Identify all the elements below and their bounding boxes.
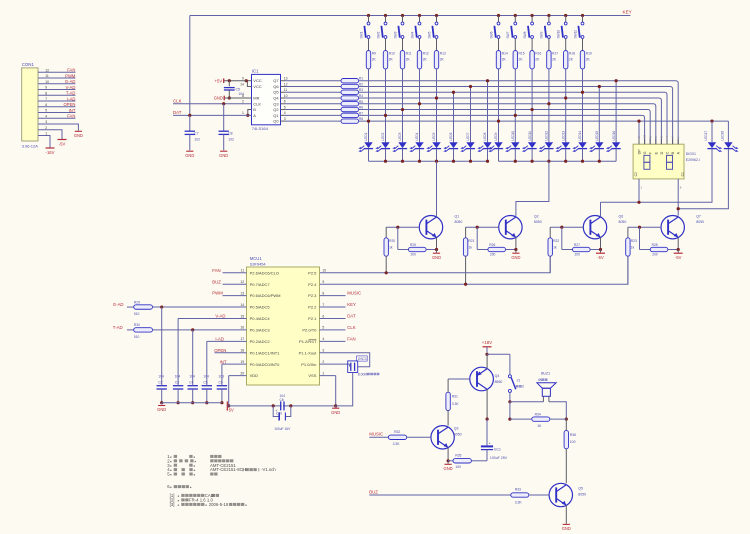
ground VSS [335, 406, 337, 408]
wire column [368, 69, 370, 142]
wire [436, 149, 438, 162]
svg-text:100: 100 [570, 440, 576, 444]
svg-text:15: 15 [240, 314, 244, 318]
wire bus 5 [359, 104, 656, 144]
svg-text:SW1: SW1 [359, 31, 363, 38]
node bus tap col [547, 102, 550, 105]
svg-text:4: 4 [322, 337, 324, 341]
svg-text:C4: C4 [189, 380, 193, 384]
wire [453, 149, 455, 162]
switch SW4 [418, 14, 421, 17]
resistor R14 [496, 51, 500, 69]
capacitor C5 [228, 79, 231, 82]
svg-text:17: 17 [240, 337, 244, 341]
svg-text:OSC1: OSC1 [358, 357, 367, 361]
svg-text:Q6: Q6 [619, 215, 624, 219]
svg-text:2: 2 [322, 360, 324, 364]
wire [582, 149, 584, 162]
svg-text:P0.6/ADC6/PWM: P0.6/ADC6/PWM [250, 293, 281, 298]
svg-text:+5V: +5V [226, 408, 234, 413]
wire to scan rail [385, 256, 387, 273]
resistor R31 [447, 379, 449, 392]
svg-text:9: 9 [45, 86, 47, 90]
svg-text:6: 6 [45, 103, 47, 107]
resistor R3 [341, 90, 359, 94]
svg-text:3.96-12A: 3.96-12A [22, 143, 39, 148]
svg-text:P0.0/ADC0/INT0: P0.0/ADC0/INT0 [250, 362, 281, 367]
svg-text:KEY: KEY [623, 10, 632, 15]
pin stub [320, 306, 346, 308]
wire [127, 306, 134, 308]
display DIG1 [633, 144, 684, 179]
wire CLK [173, 103, 252, 105]
svg-text:P0.3/ADC3: P0.3/ADC3 [250, 328, 271, 333]
svg-text:[3]: [3] [167, 502, 174, 507]
svg-text:FAN: FAN [67, 114, 75, 119]
svg-text:E20962-I: E20962-I [686, 158, 700, 162]
svg-text:7: 7 [45, 97, 47, 101]
svg-text:3.3K: 3.3K [452, 402, 460, 406]
resistor R16 [530, 51, 534, 69]
transistor Q6 [583, 216, 606, 239]
svg-text:R1: R1 [359, 77, 363, 81]
LED LED17 [711, 121, 713, 142]
svg-text:GND: GND [74, 133, 83, 138]
jumper J1 [508, 375, 511, 378]
svg-text:100: 100 [455, 465, 461, 469]
svg-text:Q7: Q7 [696, 215, 701, 219]
svg-text:R22: R22 [553, 239, 559, 243]
resistor R25 [409, 247, 427, 251]
svg-text:R2: R2 [359, 82, 363, 86]
node bus tap col [401, 108, 404, 111]
wire column [453, 92, 455, 142]
LED LED2 [381, 142, 389, 148]
svg-text:-5V: -5V [675, 255, 682, 260]
svg-text:GND: GND [331, 410, 340, 415]
svg-text:104: 104 [158, 375, 164, 379]
svg-text:LED4: LED4 [415, 132, 419, 140]
svg-text:R21: R21 [469, 239, 475, 243]
wire Q4 base [448, 378, 470, 380]
wire to scan rail [549, 256, 551, 273]
resistor R19 [580, 51, 584, 69]
wire bus 7 [359, 115, 645, 144]
svg-text:R27: R27 [574, 243, 580, 247]
svg-text:R6: R6 [359, 106, 363, 110]
LED LED7 [466, 142, 474, 148]
svg-text:C5: C5 [203, 380, 207, 384]
svg-text:T-AD: T-AD [66, 91, 76, 96]
power -16V [46, 147, 55, 149]
svg-text:8050: 8050 [454, 432, 462, 436]
node DAT drop [188, 114, 191, 117]
pin stub Q2 [281, 109, 286, 111]
svg-text:P2.1: P2.1 [308, 316, 317, 321]
wire [207, 340, 247, 342]
wire Q5 base [529, 494, 549, 496]
svg-text:LED14: LED14 [578, 131, 582, 141]
pin stub display [644, 139, 646, 145]
node bus tap col [367, 119, 370, 122]
LED LED14 [578, 142, 586, 148]
ground [512, 252, 519, 254]
wire cathode rail group2 [499, 160, 617, 162]
svg-text:R20: R20 [389, 239, 395, 243]
svg-text:12: 12 [284, 82, 288, 86]
svg-text:R33: R33 [515, 487, 521, 491]
svg-text:LED13: LED13 [561, 131, 565, 141]
svg-text:R13: R13 [440, 51, 446, 55]
ground cap rail [161, 403, 163, 405]
wire [509, 402, 511, 419]
svg-text:13: 13 [284, 77, 288, 81]
svg-text:R8: R8 [359, 117, 363, 121]
notes text block [167, 454, 195, 459]
node B-A tie [246, 114, 249, 117]
svg-text:8050: 8050 [696, 220, 704, 224]
svg-text:R14: R14 [502, 51, 508, 55]
wire column [565, 69, 567, 142]
node bus tap col [581, 91, 584, 94]
switch SW9 [547, 14, 550, 17]
svg-text:P2.4: P2.4 [308, 282, 317, 287]
pin stub [320, 317, 346, 319]
svg-text:-5V: -5V [597, 255, 604, 260]
wire [38, 89, 75, 91]
svg-text:LED3: LED3 [398, 132, 402, 140]
svg-text:LED5: LED5 [432, 132, 436, 140]
wire [402, 149, 404, 162]
ground [433, 252, 440, 254]
pin stub VCC2 [247, 81, 251, 87]
wire column [487, 81, 489, 143]
svg-text:R23: R23 [631, 239, 637, 243]
wire +5V line [227, 405, 335, 407]
svg-text:LED15: LED15 [595, 131, 599, 141]
resistor R2 [341, 84, 359, 88]
svg-text:P2.3: P2.3 [308, 293, 317, 298]
svg-text:LED9: LED9 [494, 132, 498, 140]
svg-text:SW8: SW8 [523, 31, 527, 38]
wire [487, 353, 510, 355]
resistor R17 [547, 51, 551, 69]
svg-text:12: 12 [240, 280, 244, 284]
pin stub display [666, 139, 668, 145]
node bus tap col [384, 114, 387, 117]
connector CON1 [22, 68, 38, 141]
wire [487, 149, 489, 162]
wire [402, 38, 404, 50]
resistor R34 [510, 418, 532, 420]
svg-text:3: 3 [284, 117, 286, 121]
svg-text:Q5: Q5 [273, 90, 279, 95]
switch SW10 [564, 14, 567, 17]
wire base [466, 226, 499, 228]
svg-text:8.00M: 8.00M [358, 372, 368, 376]
svg-text:8050: 8050 [578, 492, 586, 496]
wire [471, 460, 487, 462]
wire [285, 91, 341, 93]
wire emitter [677, 237, 679, 249]
switch SW6 [497, 14, 500, 17]
wire [215, 352, 223, 354]
wire [615, 149, 617, 162]
ground under C8 [220, 150, 227, 152]
wire [38, 77, 75, 79]
svg-text:8050: 8050 [534, 220, 542, 224]
svg-text:C9: C9 [219, 380, 223, 384]
svg-text:1: 1 [242, 111, 244, 115]
wire common C1 to Q7 [677, 179, 679, 216]
wire column [598, 86, 600, 142]
svg-text:5: 5 [322, 326, 324, 330]
pin stub display [638, 139, 640, 145]
svg-text:R32: R32 [394, 430, 400, 434]
wire scan rail P2.5 [320, 256, 551, 272]
svg-text:R34: R34 [535, 412, 541, 416]
svg-text:9: 9 [242, 77, 244, 81]
power -5V [58, 139, 67, 141]
svg-text:8: 8 [45, 91, 47, 95]
wire [498, 149, 500, 162]
svg-text:R36: R36 [570, 433, 576, 437]
svg-text:200: 200 [411, 253, 417, 257]
switch SW2 [384, 14, 387, 17]
wire [285, 103, 341, 105]
node bus tap col [497, 119, 500, 122]
svg-text:R12: R12 [423, 51, 429, 55]
wire base divider [397, 227, 399, 249]
svg-text:200: 200 [575, 253, 581, 257]
wire common C2 [638, 179, 640, 202]
svg-text:P0.1/ADC1/INT1: P0.1/ADC1/INT1 [250, 350, 281, 355]
capacitor C8 [223, 104, 225, 131]
resistor R36 [565, 419, 567, 430]
svg-text:V-AD: V-AD [66, 85, 76, 90]
resistor R30 [134, 328, 153, 332]
svg-text:DIG01: DIG01 [686, 152, 696, 156]
switch SW5 [435, 14, 438, 17]
switch SW11 [581, 14, 584, 17]
svg-text:SW9: SW9 [540, 31, 544, 38]
wire [127, 329, 134, 331]
svg-text:IC1: IC1 [252, 69, 259, 74]
transistor Q2 [499, 216, 522, 239]
svg-text:Q7: Q7 [273, 78, 279, 83]
svg-text:C1: C1 [681, 172, 685, 176]
node bus tap col [514, 114, 517, 117]
svg-text:CON1: CON1 [22, 62, 35, 67]
wire column [582, 69, 584, 142]
wire [514, 38, 516, 50]
wire VDD [228, 376, 230, 406]
capacitor C2 [161, 307, 163, 381]
node bus tap col [531, 108, 534, 111]
wire [385, 149, 387, 162]
transistor Q3 [431, 426, 454, 449]
svg-text:P0.2/ADC2: P0.2/ADC2 [250, 339, 271, 344]
svg-text:2006-5-18: 2006-5-18 [209, 502, 229, 507]
node bus tap col [564, 96, 567, 99]
svg-text:7: 7 [322, 303, 324, 307]
svg-text:J1: J1 [517, 378, 521, 382]
wire [153, 329, 247, 331]
resistor R22 [549, 227, 551, 238]
svg-text:104: 104 [175, 375, 181, 379]
svg-text:3: 3 [322, 349, 324, 353]
wire [38, 83, 75, 85]
wire [531, 149, 533, 162]
svg-text:A: A [253, 113, 256, 118]
wire MR/GND [224, 97, 251, 99]
wire [582, 38, 584, 50]
wire [153, 306, 247, 308]
IC U1 74LS164 [252, 74, 281, 124]
pin stub [223, 272, 247, 274]
power +5V at IC1 [223, 78, 225, 83]
svg-text:20: 20 [240, 371, 244, 375]
wire [565, 38, 567, 50]
resistor R9 [366, 51, 370, 69]
resonator OSC1 [348, 361, 358, 373]
pin stub Q0 [281, 120, 286, 122]
wire Q5 emitter [565, 505, 567, 524]
svg-text:200: 200 [490, 253, 496, 257]
svg-text:6: 6 [322, 314, 324, 318]
wire Q4 collector [486, 389, 488, 419]
svg-text:1k: 1k [553, 245, 557, 249]
svg-text:SW5: SW5 [427, 31, 431, 38]
node bus tap col [435, 96, 438, 99]
wire [38, 136, 50, 148]
svg-text:-5V: -5V [59, 141, 66, 146]
wire to scan rail [627, 256, 629, 284]
wire rail1 drop to Q1 [436, 161, 438, 216]
wire collector [436, 215, 438, 218]
wire [509, 354, 511, 375]
svg-text:+5V: +5V [215, 78, 223, 83]
svg-text:C2: C2 [634, 172, 638, 176]
svg-text:GND: GND [157, 407, 166, 412]
svg-text:R19: R19 [586, 51, 592, 55]
svg-text:10: 10 [45, 80, 49, 84]
svg-text:LED7: LED7 [466, 132, 470, 140]
wire [419, 38, 421, 50]
overline RST [309, 338, 317, 340]
wire column [498, 69, 500, 142]
svg-text:Q4: Q4 [273, 96, 279, 101]
svg-text:C3: C3 [175, 380, 179, 384]
wire emitter [436, 237, 438, 249]
svg-text:P2.5: P2.5 [308, 270, 317, 275]
svg-text:R29: R29 [134, 300, 140, 304]
svg-text:LED16: LED16 [612, 131, 616, 141]
capacitor C6 [272, 404, 275, 407]
svg-text:R16: R16 [535, 51, 541, 55]
capacitor C10 electrolytic [273, 406, 279, 417]
svg-text:P1.0/Xin: P1.0/Xin [301, 362, 316, 367]
LED LED13 [562, 142, 570, 148]
svg-text:CLK: CLK [347, 325, 355, 330]
wire buzzer to R36 [549, 402, 566, 419]
resistor R28 [650, 247, 668, 251]
svg-text:Q6: Q6 [273, 84, 279, 89]
svg-text:11: 11 [241, 269, 245, 273]
svg-text:FAN: FAN [67, 68, 75, 73]
svg-text:P1.1-Xout: P1.1-Xout [299, 350, 318, 355]
wire base [550, 226, 583, 228]
svg-text:2: 2 [242, 100, 244, 104]
wire column [470, 86, 472, 142]
resistor R12 [417, 51, 421, 69]
transistor Q5 [549, 483, 572, 506]
svg-text:Q4: Q4 [495, 374, 500, 378]
node +5V junction [245, 79, 248, 82]
svg-text:102: 102 [228, 138, 234, 142]
capacitor C3 [177, 318, 179, 381]
svg-text:8050: 8050 [619, 220, 627, 224]
svg-text:100uF 16V: 100uF 16V [274, 427, 291, 431]
svg-text:I-AD: I-AD [215, 336, 224, 341]
LED LED15 [595, 142, 603, 148]
svg-text:102: 102 [194, 138, 200, 142]
wire DAT [173, 114, 252, 116]
pin stub Q6 [281, 85, 286, 87]
svg-text:BUZ: BUZ [369, 490, 378, 495]
svg-text:Q3: Q3 [273, 101, 279, 106]
svg-text:4: 4 [284, 111, 286, 115]
svg-text:1k: 1k [389, 245, 393, 249]
LED LED11 [528, 142, 536, 148]
transistor Q1 [419, 216, 442, 239]
svg-text:Q2: Q2 [534, 215, 539, 219]
svg-text:R5: R5 [359, 100, 363, 104]
svg-text:Q1: Q1 [273, 113, 279, 118]
wire bus 4 [359, 98, 662, 144]
switch SW1 [367, 14, 370, 17]
pin stub [223, 295, 247, 297]
LED LED1 [364, 142, 372, 148]
svg-text:3.3K: 3.3K [515, 501, 523, 505]
svg-text:OPEN: OPEN [64, 102, 76, 107]
wire base divider [561, 227, 563, 249]
svg-text:12: 12 [45, 68, 49, 72]
resistor R18 [564, 51, 568, 69]
wire bus 6 [359, 110, 651, 145]
node CLK tap [222, 102, 225, 105]
node bus tap col [486, 79, 489, 82]
resistor R13 [434, 51, 438, 69]
svg-text:LED10: LED10 [511, 131, 515, 141]
resistor R6 [341, 107, 359, 111]
svg-text:1k: 1k [469, 245, 473, 249]
wire [565, 149, 567, 162]
svg-text:SW7: SW7 [506, 31, 510, 38]
wire KEY rail [190, 15, 631, 17]
svg-text:SW3: SW3 [393, 31, 397, 38]
ground at MR [223, 96, 225, 101]
svg-text:3.3K: 3.3K [393, 442, 401, 446]
digit glyph 1 [644, 155, 650, 162]
resistor R15 [513, 51, 517, 69]
svg-text:1: 1 [45, 132, 47, 136]
ground under C7 [186, 150, 193, 152]
svg-text:GND: GND [511, 255, 520, 260]
switch SW7 [514, 14, 517, 17]
resistor R10 [383, 51, 387, 69]
svg-text:5: 5 [45, 109, 47, 113]
